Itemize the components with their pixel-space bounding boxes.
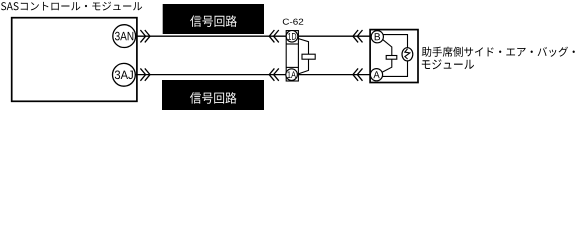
label: connector C-62 [283,19,303,25]
pin A [370,69,382,81]
connector chevrons out of SAS module (wire 3AN) [140,30,150,42]
connector C-62 housing [286,31,298,81]
wire: pin 3AJ to connector C-62 pin 1A [130,74,287,76]
label: SAS control module "SASコントロール・モジュール" [1,2,142,11]
connector chevrons into air bag module (wire A) [353,68,363,80]
pin 3AN [113,25,136,48]
connector chevrons into air bag module (wire B) [353,30,363,42]
shorting bar at C-62 [298,39,315,75]
squib (igniter) in air bag module [402,48,413,61]
pin 1A [286,69,298,81]
connector chevrons into C-62 (wire 3AJ) [269,68,279,80]
signal circuit block (bottom) "信号回路" [162,80,264,110]
wire: pin 3AN to connector C-62 pin 1D [130,35,287,37]
air bag module box [370,30,418,83]
signal circuit block (top) "信号回路" [163,4,264,34]
wire: C-62 pin 1D to module pin B [298,35,372,37]
pin B [371,31,383,43]
SAS control module box [12,18,137,102]
shorting bar in air bag module [382,39,397,73]
pin 3AJ [113,63,136,86]
pin 1D [286,31,298,43]
connector chevrons out of SAS module (wire 3AJ) [140,68,150,80]
wire: C-62 pin 1A to module pin A [298,74,372,76]
connector chevrons into C-62 (wire 3AN) [269,30,279,42]
label: passenger side air bag module "助手席側サイド・エア・バッグ・モジュール" [422,47,575,70]
squib wiring: pin B to squib to pin A [382,35,408,48]
